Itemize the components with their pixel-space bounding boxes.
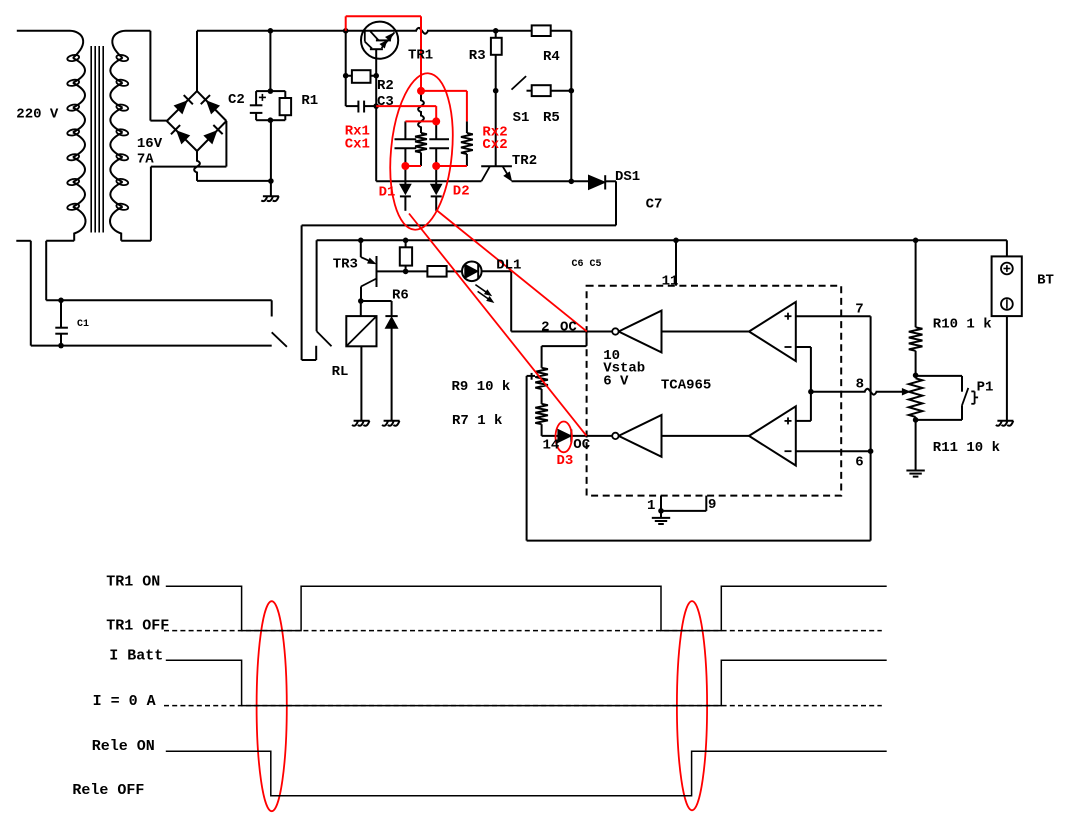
svg-text:BT: BT xyxy=(1037,273,1054,289)
svg-text:C3: C3 xyxy=(377,94,394,110)
svg-text:14: 14 xyxy=(543,438,560,454)
svg-text:TR3: TR3 xyxy=(333,256,358,272)
svg-text:9: 9 xyxy=(708,497,716,513)
svg-text:R1: R1 xyxy=(301,93,318,109)
svg-text:R7 1 k: R7 1 k xyxy=(452,413,502,429)
svg-text:C7: C7 xyxy=(646,197,663,213)
svg-text:D2: D2 xyxy=(453,184,470,200)
svg-text:I Batt: I Batt xyxy=(109,648,163,665)
svg-text:TR1 OFF: TR1 OFF xyxy=(106,617,169,634)
svg-text:R3: R3 xyxy=(469,48,486,64)
svg-text:6: 6 xyxy=(855,455,863,471)
svg-text:Cx2: Cx2 xyxy=(482,137,507,153)
svg-text:D3: D3 xyxy=(557,453,574,469)
svg-text:220 V: 220 V xyxy=(16,106,59,122)
svg-text:S1: S1 xyxy=(513,110,530,126)
svg-text:R4: R4 xyxy=(543,49,560,65)
svg-text:P1: P1 xyxy=(977,379,994,395)
svg-text:11: 11 xyxy=(662,273,679,289)
svg-text:C6 C5: C6 C5 xyxy=(572,259,602,270)
svg-text:16V: 16V xyxy=(137,136,163,152)
svg-text:7A: 7A xyxy=(137,151,154,167)
svg-text:OC: OC xyxy=(560,320,577,336)
svg-text:Cx1: Cx1 xyxy=(345,136,370,152)
svg-text:8: 8 xyxy=(856,376,864,392)
svg-text:OC: OC xyxy=(573,437,590,453)
svg-text:RL: RL xyxy=(332,364,349,380)
svg-text:R9 10 k: R9 10 k xyxy=(452,379,511,395)
svg-text:D1: D1 xyxy=(379,185,396,201)
svg-text:DS1: DS1 xyxy=(615,169,640,185)
svg-text:TR1: TR1 xyxy=(408,48,433,64)
svg-text:I = 0 A: I = 0 A xyxy=(93,693,156,710)
svg-text:C2: C2 xyxy=(228,92,245,108)
svg-text:DL1: DL1 xyxy=(496,258,521,274)
svg-text:Rele ON: Rele ON xyxy=(92,738,155,755)
svg-text:R5: R5 xyxy=(543,110,560,126)
svg-text:R2: R2 xyxy=(377,78,394,94)
svg-text:TR2: TR2 xyxy=(512,153,537,169)
svg-text:R10 1 k: R10 1 k xyxy=(933,316,992,332)
svg-text:Rele OFF: Rele OFF xyxy=(72,782,144,799)
svg-text:7: 7 xyxy=(855,301,863,317)
svg-text:6 V: 6 V xyxy=(603,373,629,389)
svg-text:R11 10 k: R11 10 k xyxy=(933,440,1000,456)
svg-text:TCA965: TCA965 xyxy=(661,378,711,394)
svg-text:2: 2 xyxy=(541,320,549,336)
svg-text:C1: C1 xyxy=(77,319,89,330)
svg-text:R6: R6 xyxy=(392,287,409,303)
svg-text:TR1 ON: TR1 ON xyxy=(106,574,160,591)
svg-text:1: 1 xyxy=(647,498,655,514)
